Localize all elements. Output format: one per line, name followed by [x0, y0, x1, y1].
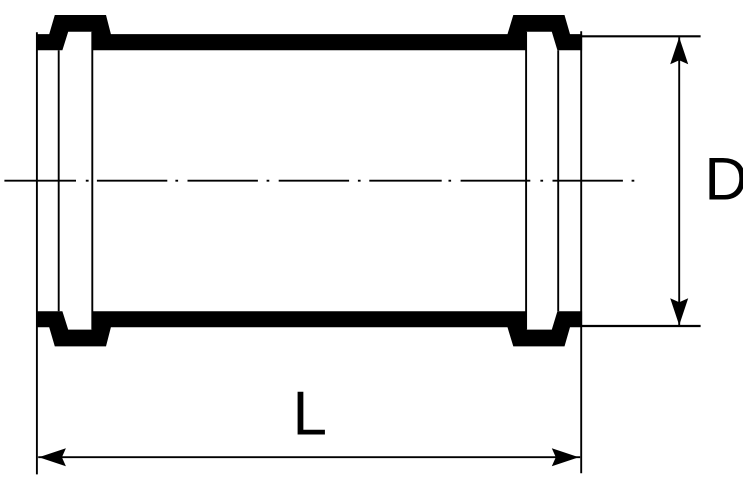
svg-text:L: L [293, 380, 327, 449]
left socket groove inner edge line [91, 32, 93, 330]
L dimension arrowhead left [39, 448, 66, 466]
D dimension arrowhead bottom [670, 298, 688, 325]
left socket depth line [58, 50, 60, 311]
D bottom extension line [582, 325, 701, 327]
coupling top wall (outer profile with two raised socket collars) [36, 15, 582, 50]
centerline (dash-dot axis) [4, 180, 634, 182]
left end face line / L extension line [36, 32, 38, 474]
right socket groove inner edge line [525, 32, 527, 330]
right end face line / L extension line [580, 31, 582, 473]
right socket depth line [557, 50, 559, 311]
D dimension arrowhead top [670, 37, 688, 64]
coupling bottom wall (mirror of top) [36, 311, 582, 346]
D dimension line [678, 37, 680, 325]
L dimension line [38, 456, 580, 458]
L dimension arrowhead right [552, 448, 579, 466]
svg-text:D: D [705, 146, 743, 213]
D top extension line [582, 35, 701, 37]
